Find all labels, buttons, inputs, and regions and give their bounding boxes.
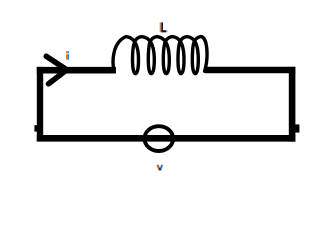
wire: right vertical <box>289 67 296 142</box>
wire: top left segment <box>37 67 116 74</box>
current arrow i <box>46 56 67 84</box>
voltage source v <box>145 126 174 151</box>
label v <box>157 165 162 171</box>
label L <box>160 22 168 32</box>
inductor L <box>113 37 207 74</box>
tick left <box>34 125 37 131</box>
label i <box>66 51 69 59</box>
wire: left vertical <box>37 67 43 142</box>
tick right <box>295 124 299 132</box>
wire: bottom <box>37 135 296 142</box>
wire: top right segment <box>205 67 295 73</box>
